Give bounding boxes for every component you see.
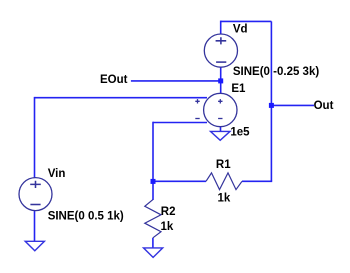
ground bbox=[25, 241, 44, 251]
svg-text:R1: R1 bbox=[216, 159, 231, 171]
wire bbox=[35, 97, 208, 99]
value SINE(0 0.5 1k) bbox=[48, 211, 124, 223]
svg-text:SINE(0 0.5 1k): SINE(0 0.5 1k) bbox=[48, 211, 124, 223]
wire bbox=[220, 127, 222, 132]
value SINE(0 -0.25 3k) bbox=[233, 66, 319, 78]
svg-text:1e5: 1e5 bbox=[230, 127, 250, 139]
label R1 bbox=[216, 159, 231, 171]
svg-text:R2: R2 bbox=[161, 206, 176, 218]
resistor R2 bbox=[145, 200, 161, 238]
wire bbox=[152, 238, 154, 248]
wire bbox=[152, 122, 154, 200]
svg-text:Out: Out bbox=[314, 100, 334, 112]
value 1k bbox=[218, 193, 231, 205]
value 1k bbox=[161, 221, 174, 233]
svg-text:Vd: Vd bbox=[233, 24, 248, 36]
svg-text:1k: 1k bbox=[161, 221, 174, 233]
op-amp (VCVS) E1 bbox=[195, 93, 237, 126]
junction node bbox=[218, 78, 223, 83]
wire bbox=[242, 180, 272, 182]
svg-text:E1: E1 bbox=[231, 83, 246, 95]
resistor R1 bbox=[206, 173, 242, 190]
svg-text:SINE(0 -0.25 3k): SINE(0 -0.25 3k) bbox=[233, 66, 319, 78]
node label Out bbox=[314, 100, 334, 112]
wire bbox=[34, 97, 36, 178]
wire EOut bbox=[131, 80, 221, 82]
wire bbox=[153, 122, 207, 124]
label Vd bbox=[233, 24, 248, 36]
voltage source Vin bbox=[19, 178, 52, 211]
wire Out bbox=[271, 104, 314, 106]
junction node bbox=[151, 179, 156, 184]
label E1 bbox=[231, 83, 246, 95]
wire bbox=[220, 21, 222, 35]
svg-text:EOut: EOut bbox=[100, 74, 128, 86]
wire bbox=[221, 20, 272, 22]
wire bbox=[270, 21, 272, 181]
svg-text:Vin: Vin bbox=[48, 168, 66, 180]
node label EOut bbox=[100, 74, 128, 86]
wire bbox=[34, 211, 36, 242]
value 1e5 bbox=[230, 127, 250, 139]
junction node Out bbox=[269, 103, 274, 108]
ground bbox=[211, 131, 231, 140]
wire bbox=[153, 180, 206, 182]
ground bbox=[144, 248, 163, 258]
label R2 bbox=[161, 206, 176, 218]
label Vin bbox=[48, 168, 66, 180]
svg-text:1k: 1k bbox=[218, 193, 231, 205]
wire bbox=[220, 67, 222, 93]
voltage source Vd bbox=[204, 34, 237, 67]
